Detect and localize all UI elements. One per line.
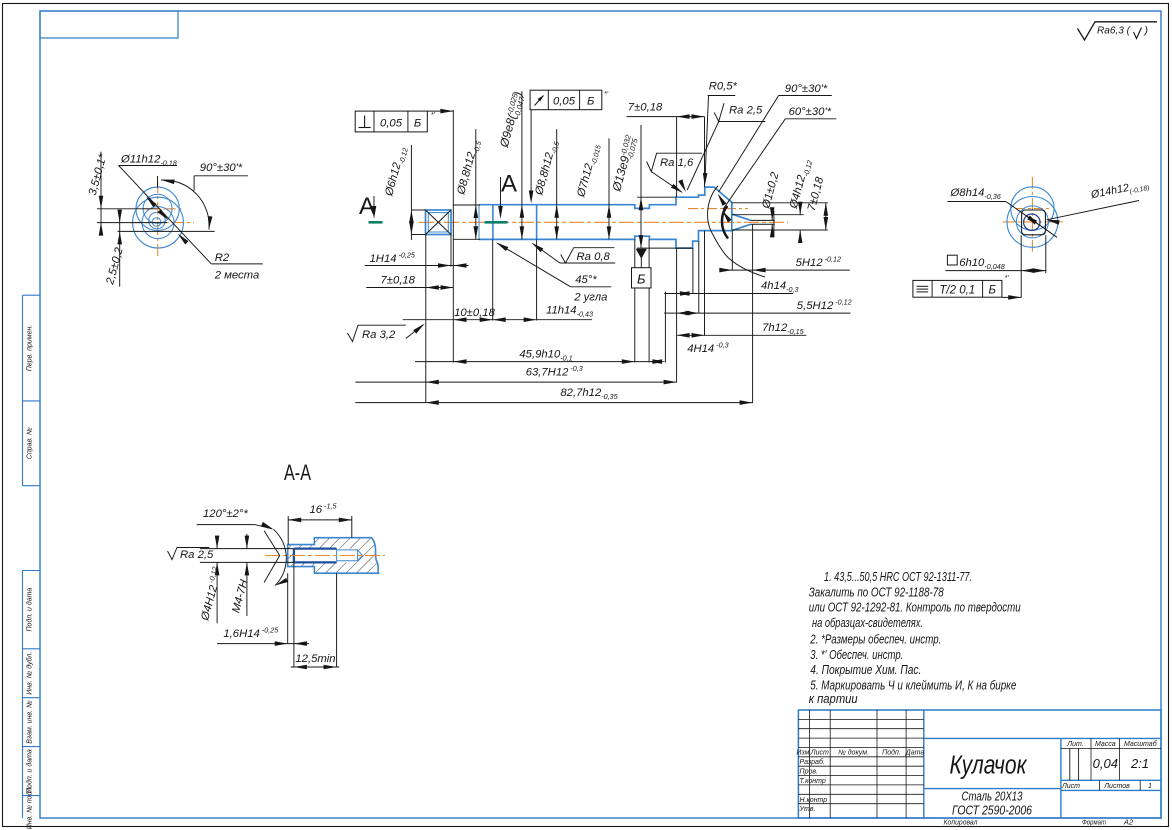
svg-text:Т.контр: Т.контр — [800, 778, 826, 785]
dimension 1Н14 — [365, 265, 469, 267]
cutting plane arrow A middle — [500, 177, 502, 216]
roughness Ra 2,5 (top) — [719, 121, 766, 123]
svg-text:ГОСТ 2590-2006: ГОСТ 2590-2006 — [952, 803, 1033, 818]
roughness Ra 2,5 (A-A) — [168, 548, 210, 560]
cutting plane trace A (middle) — [484, 221, 507, 224]
leader R2 2 места — [211, 263, 262, 265]
svg-text:*': *' — [604, 89, 609, 98]
cutting plane arrow A left — [373, 196, 375, 216]
svg-text:45°*: 45°* — [575, 274, 597, 286]
svg-text:А-А: А-А — [284, 460, 311, 485]
dimension 4h14 — [664, 293, 793, 295]
dimension Ø13e9 — [640, 125, 642, 248]
svg-text:4. Покрытие Хим. Пас.: 4. Покрытие Хим. Пас. — [810, 662, 921, 677]
svg-text:на образцах-свидетелях.: на образцах-свидетелях. — [812, 615, 923, 630]
dimension 12,5min — [336, 573, 338, 667]
tolerance frame 0,05 Б (runout) — [530, 90, 602, 110]
svg-text:Инв. № дубл.: Инв. № дубл. — [26, 652, 34, 695]
roughness Ra 3,2 — [347, 325, 405, 341]
svg-text:90°±30'*: 90°±30'* — [200, 162, 243, 174]
svg-text:Разраб.: Разраб. — [800, 758, 825, 766]
svg-text:Лист: Лист — [810, 750, 829, 757]
svg-text:Закалить по ОСТ 92-1188-78: Закалить по ОСТ 92-1188-78 — [809, 584, 945, 599]
svg-text:Б: Б — [414, 117, 421, 129]
svg-text:Дата: Дата — [905, 750, 925, 757]
extension lines A-A hole — [200, 548, 294, 550]
title block — [798, 710, 1161, 818]
general roughness Ra6,3 — [1078, 22, 1158, 40]
svg-text:Масса: Масса — [1095, 741, 1116, 748]
cutting plane trace A (left) — [369, 221, 383, 224]
groove extension lines (1H14 zone) — [454, 204, 481, 206]
svg-text:2 места: 2 места — [214, 269, 260, 281]
cam axis centerline — [688, 208, 748, 210]
extension lines below shaft — [425, 235, 427, 404]
main view centerline — [419, 221, 788, 223]
dimension 7±0,18 (tip) — [825, 203, 827, 230]
svg-text:А2: А2 — [1123, 818, 1134, 827]
section A-A hole — [294, 549, 358, 563]
svg-text:А: А — [501, 171, 517, 198]
svg-text:№ докум.: № докум. — [838, 749, 869, 757]
svg-text:12,5min: 12,5min — [295, 653, 335, 665]
svg-text:60°±30'*: 60°±30'* — [789, 106, 832, 118]
svg-text:Лист: Лист — [1061, 783, 1080, 790]
centerlines left view — [157, 181, 159, 259]
svg-text:7±0,18: 7±0,18 — [381, 275, 416, 287]
svg-text:R0,5*: R0,5* — [709, 81, 738, 93]
svg-text:Формат: Формат — [1082, 818, 1106, 827]
extension lines shaft tip — [732, 202, 828, 204]
dimension 1,6Н14 — [287, 573, 289, 643]
dimension Ø8h14 — [947, 201, 1005, 203]
dimension Ø4Н12 — [216, 536, 218, 549]
svg-text:к партии: к партии — [809, 691, 858, 706]
dimension 5,5Н12 — [664, 312, 850, 314]
roughness Ra 1,6 — [647, 153, 703, 171]
svg-text:Т/2 0,1: Т/2 0,1 — [939, 285, 975, 297]
dimension Ø14h12 — [1047, 201, 1140, 220]
svg-text:Ra 0,8: Ra 0,8 — [577, 251, 611, 263]
cam profile arc large — [708, 186, 765, 277]
right view circles — [1011, 187, 1054, 230]
svg-text:Ra 2,5: Ra 2,5 — [180, 549, 214, 561]
svg-text:Лит.: Лит. — [1066, 741, 1083, 748]
countersink 120° — [264, 531, 280, 556]
svg-text:Ra 1,6: Ra 1,6 — [660, 157, 694, 169]
dimension Ø9e8 — [521, 91, 523, 239]
svg-text:7±0,18: 7±0,18 — [628, 102, 663, 114]
svg-text:1. 43,5...50,5 HRC ОСТ 92-1311: 1. 43,5...50,5 HRC ОСТ 92-1311-77. — [824, 569, 972, 584]
svg-text:Ra6,3 (: Ra6,3 ( — [1097, 25, 1131, 37]
svg-text:А: А — [359, 193, 375, 220]
dimension 7±0,18 (square) — [366, 287, 453, 289]
svg-text:Ra 2,5: Ra 2,5 — [729, 104, 763, 116]
dimension Ø8,8h12 (first) — [475, 129, 477, 239]
svg-text:10±0,18: 10±0,18 — [454, 307, 495, 319]
dimension Ø1±0,2 — [771, 211, 773, 221]
dimension 5Н12 — [720, 269, 850, 271]
section A-A centerline — [265, 555, 385, 557]
svg-text:Копировал: Копировал — [944, 818, 979, 827]
svg-text:R2: R2 — [215, 252, 230, 264]
svg-text:Б: Б — [989, 285, 997, 297]
svg-text:Ra 3,2: Ra 3,2 — [362, 329, 396, 341]
dimension М4-7Н — [246, 534, 248, 549]
svg-text:Б: Б — [637, 272, 646, 287]
dimension 82,7h12 — [355, 402, 752, 404]
dimension 7h12 — [677, 334, 806, 336]
svg-text:Листов: Листов — [1103, 783, 1130, 790]
svg-text:Утв.: Утв. — [799, 806, 816, 813]
section A-A hatched body — [288, 538, 379, 574]
dimension Ø11h12 — [119, 166, 212, 264]
dimension Ø7h12 — [608, 138, 610, 239]
top-left stamp box — [40, 11, 178, 38]
svg-text:120°±2°*: 120°±2°* — [203, 508, 248, 520]
dimension 2,5±0,2 — [119, 212, 121, 286]
shaft square end section — [426, 210, 452, 235]
svg-text:2:1: 2:1 — [1130, 756, 1149, 771]
svg-text:Кулачок: Кулачок — [950, 752, 1028, 780]
svg-text:90°±30'*: 90°±30'* — [785, 83, 828, 95]
svg-text:0,05: 0,05 — [553, 96, 576, 108]
leader 45° 2 угла — [571, 286, 612, 288]
shaft body outline — [479, 187, 751, 220]
left margin columns — [22, 295, 24, 486]
left view extension lines — [97, 208, 158, 210]
right view square 6h10 — [1022, 210, 1046, 235]
right view circle Ø8h14 — [1024, 214, 1040, 230]
datum Б — [637, 249, 647, 258]
svg-text:Справ. №: Справ. № — [27, 427, 34, 459]
svg-text:Б: Б — [587, 96, 594, 108]
svg-text:Н.контр: Н.контр — [800, 797, 828, 804]
svg-text:0,05: 0,05 — [380, 117, 403, 129]
dimension 45,9h10 and 4Н14 — [415, 361, 658, 363]
svg-text:Изм.: Изм. — [796, 750, 811, 757]
svg-text:1: 1 — [1148, 783, 1152, 790]
dimension 120°±2° — [274, 529, 287, 585]
svg-text:2. *Размеры обеспеч. инстр.: 2. *Размеры обеспеч. инстр. — [810, 632, 942, 647]
dimension 90°±30' — [157, 176, 159, 188]
svg-text:Подп.: Подп. — [882, 749, 901, 757]
svg-text:Инв. № подл.: Инв. № подл. — [26, 786, 34, 829]
svg-text:Взам. инв. №: Взам. инв. № — [27, 700, 34, 744]
centerlines right view — [1031, 177, 1033, 252]
dimension 10±0,18 and 11h14 — [403, 319, 592, 321]
roughness Ra 0,8 — [560, 262, 615, 264]
dimension 7±0,18 (top) — [627, 116, 705, 118]
dimension Ø6h12 — [410, 145, 412, 240]
cam edge arc thick — [722, 206, 728, 239]
svg-text:2 угла: 2 угла — [573, 291, 607, 303]
shaft tip Ø1 cylinder — [751, 219, 775, 221]
dimension 63,7Н12 — [355, 381, 676, 383]
dimension Ø8,8h12 (second) — [556, 129, 558, 239]
svg-text:Сталь 20Х13: Сталь 20Х13 — [962, 789, 1024, 804]
svg-text:3. *' Обеспеч. инстр.: 3. *' Обеспеч. инстр. — [810, 647, 903, 662]
svg-text:Перв. примен.: Перв. примен. — [27, 325, 34, 372]
svg-text:5. Маркировать Ч и клеймить И,: 5. Маркировать Ч и клеймить И, К на бирк… — [810, 677, 1016, 692]
svg-text:*': *' — [1005, 273, 1010, 282]
dimension 3,5±0,1 — [100, 152, 102, 229]
svg-text:Пров.: Пров. — [800, 769, 819, 776]
tolerance frame T/2 0,1 Б — [913, 280, 1002, 297]
svg-text:Подп. и дата: Подп. и дата — [26, 588, 34, 632]
svg-text:0,04: 0,04 — [1093, 756, 1118, 771]
svg-text:Масштаб: Масштаб — [1124, 740, 1158, 748]
svg-text:или ОСТ 92-1292-81. Контроль п: или ОСТ 92-1292-81. Контроль по твердост… — [809, 600, 1021, 615]
left view circles — [136, 187, 179, 230]
dimension Ø4h12 — [799, 202, 801, 215]
tolerance frame ⊥ 0,05 Б — [355, 111, 427, 132]
dimension □6h10 — [947, 255, 957, 265]
